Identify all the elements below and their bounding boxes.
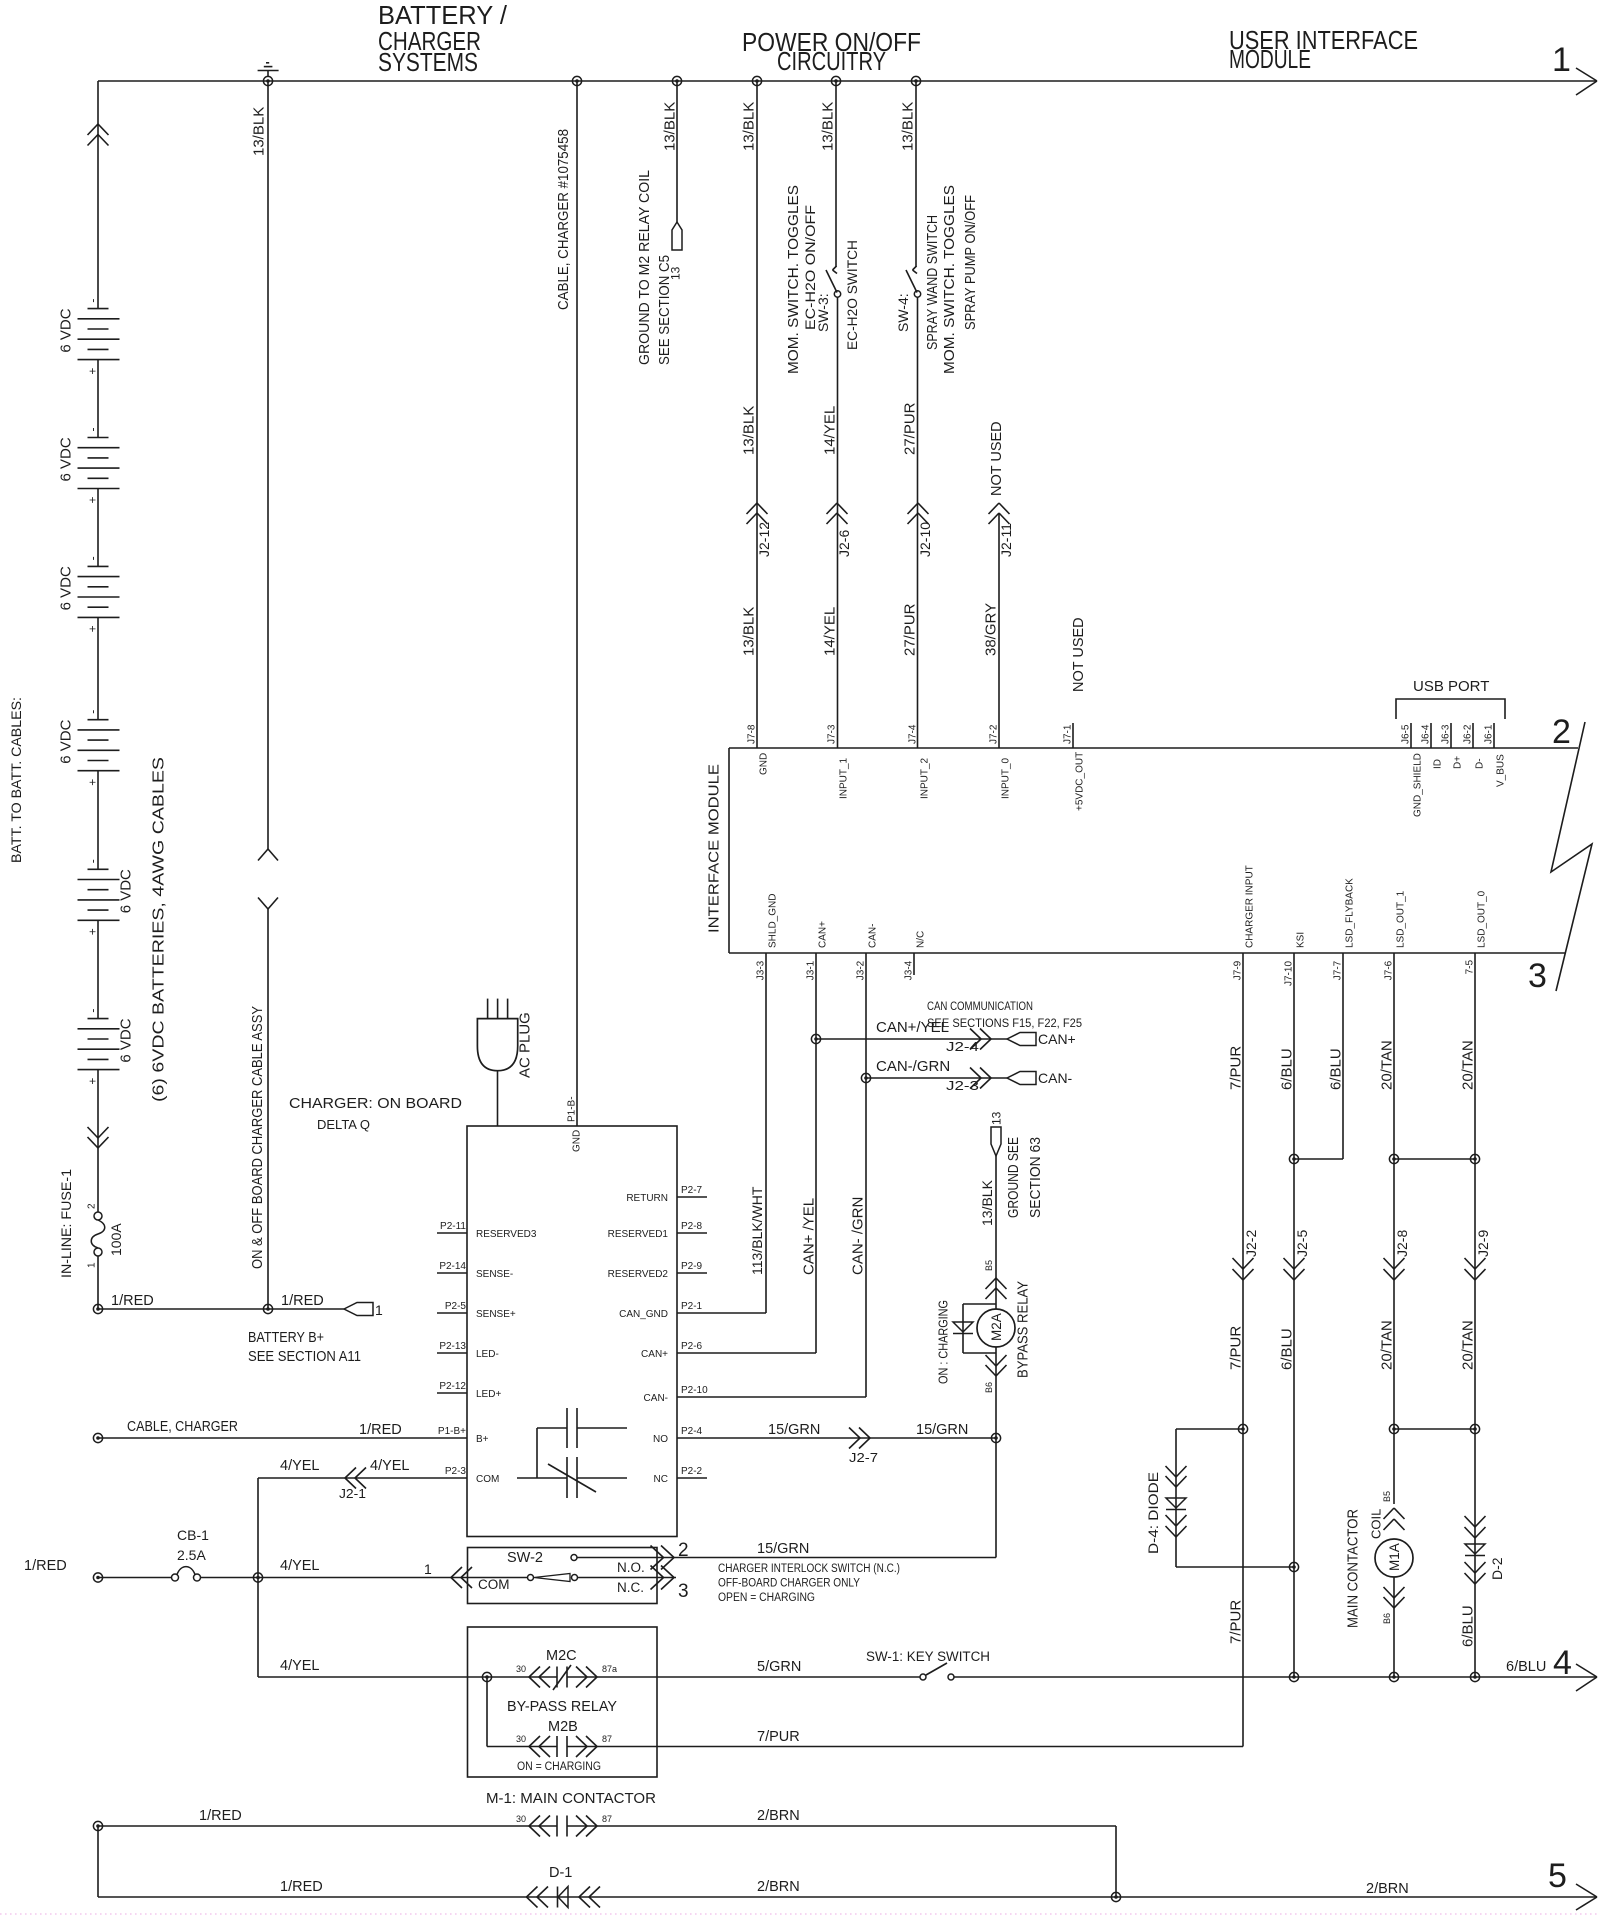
wire fuse to junction bbox=[97, 1256, 99, 1309]
svg-text:D-4: DIODE: D-4: DIODE bbox=[1145, 1472, 1161, 1554]
svg-text:3: 3 bbox=[678, 1581, 689, 1602]
label 13/BLK x269 bbox=[250, 107, 267, 156]
label SW-4: bbox=[895, 293, 911, 332]
svg-text:CIRCUITRY: CIRCUITRY bbox=[777, 46, 886, 76]
node junction x1394 y1677 bbox=[1389, 1672, 1398, 1681]
node junction x98 y1577.5 bbox=[93, 1573, 102, 1582]
label J2-5 bbox=[1294, 1230, 1310, 1257]
node junction top rail x757 bbox=[752, 76, 761, 85]
wire 27/PUR x918 lower bbox=[917, 297, 919, 748]
relay coil M2A bbox=[977, 1309, 1015, 1347]
svg-text:J2-7: J2-7 bbox=[849, 1451, 878, 1465]
wire CAN- P2-10 to x866 bbox=[707, 1396, 866, 1398]
wire 13/BLK x757 bbox=[756, 81, 758, 748]
label 87a (M2C) bbox=[602, 1664, 617, 1674]
wire battery B5 to B6 bbox=[97, 920, 99, 1018]
usb port bracket bbox=[1396, 699, 1505, 719]
pin J7-3 INPUT_1 bbox=[827, 724, 850, 799]
pin J3-4 N/C bbox=[904, 931, 927, 980]
svg-text:J2-1: J2-1 bbox=[339, 1487, 366, 1501]
svg-text:7-5: 7-5 bbox=[1465, 960, 1476, 975]
svg-text:CAN-/GRN: CAN-/GRN bbox=[876, 1058, 950, 1075]
node junction top rail x916 bbox=[911, 76, 920, 85]
label 7/PUR mid bbox=[1227, 1326, 1244, 1370]
svg-text:-: - bbox=[85, 299, 99, 303]
label OFF-BOARD CHARGER ONLY bbox=[718, 1578, 860, 1590]
svg-text:1: 1 bbox=[1552, 41, 1571, 79]
label 87 (M-1) bbox=[602, 1814, 612, 1824]
svg-text:SYSTEMS: SYSTEMS bbox=[378, 47, 478, 77]
label CAN- /GRN vertical bbox=[849, 1197, 866, 1275]
relay contact M-1 bbox=[529, 1816, 597, 1837]
pin P2-8 RESERVED1 bbox=[608, 1221, 707, 1240]
svg-text:-: - bbox=[85, 710, 99, 714]
wire chevrons J2-4 bbox=[970, 1029, 991, 1050]
switch SW-4 spray wand bbox=[906, 266, 921, 297]
svg-text:SPRAY PUMP ON/OFF: SPRAY PUMP ON/OFF bbox=[963, 195, 979, 330]
svg-text:SEE SECTIONS F15, F22, F25: SEE SECTIONS F15, F22, F25 bbox=[927, 1018, 1082, 1030]
svg-text:J3-2: J3-2 bbox=[856, 960, 867, 980]
svg-text:13/BLK: 13/BLK bbox=[740, 607, 757, 656]
svg-text:J2-11: J2-11 bbox=[998, 523, 1014, 557]
svg-text:P2-13: P2-13 bbox=[439, 1341, 466, 1352]
label COM bbox=[478, 1577, 510, 1592]
label 1/RED right bbox=[281, 1293, 324, 1309]
wire 15/GRN SW-2 to M2A bbox=[676, 1557, 996, 1559]
svg-text:LSD_OUT_1: LSD_OUT_1 bbox=[1396, 890, 1407, 948]
label GROUND SEE bbox=[1006, 1137, 1022, 1218]
label SEE SECTION A11 bbox=[248, 1349, 361, 1365]
svg-text:SECTION 63: SECTION 63 bbox=[1028, 1137, 1044, 1218]
svg-text:J2-4: J2-4 bbox=[946, 1040, 979, 1054]
node junction top rail x677 bbox=[672, 76, 681, 85]
svg-text:INTERFACE MODULE: INTERFACE MODULE bbox=[705, 764, 722, 933]
sheet arrow 4 bbox=[1553, 1644, 1597, 1691]
svg-text:MOM. SWITCH. TOGGLES: MOM. SWITCH. TOGGLES bbox=[786, 185, 802, 374]
svg-text:1/RED: 1/RED bbox=[280, 1879, 323, 1895]
label M-1: MAIN CONTACTOR bbox=[486, 1791, 656, 1807]
svg-text:P2-2: P2-2 bbox=[681, 1466, 703, 1477]
heading BATTERY / CHARGER SYSTEMS bbox=[378, 0, 508, 77]
wire 1/RED to D-1 bbox=[98, 1896, 1597, 1898]
svg-text:27/PUR: 27/PUR bbox=[901, 402, 918, 455]
svg-text:CHARGER: ON BOARD: CHARGER: ON BOARD bbox=[289, 1096, 462, 1112]
wire CAN+ vertical bbox=[815, 975, 817, 1353]
svg-text:CAN_GND: CAN_GND bbox=[619, 1309, 668, 1320]
svg-text:D-2: D-2 bbox=[1489, 1557, 1505, 1580]
label BY-PASS RELAY bbox=[507, 1699, 617, 1715]
heading POWER ON/OFF CIRCUITRY bbox=[742, 27, 921, 76]
label NOT USED (J7-1) bbox=[1071, 617, 1087, 692]
svg-text:2/BRN: 2/BRN bbox=[757, 1808, 800, 1824]
wire CB-1 to SW-2 COM bbox=[201, 1577, 529, 1579]
label 20/TAN mid x1394 bbox=[1378, 1320, 1395, 1370]
switch SW-2 contacts bbox=[528, 1555, 578, 1582]
svg-text:INPUT_1: INPUT_1 bbox=[839, 757, 850, 799]
label 30 (M-1) bbox=[516, 1814, 526, 1824]
wire 6/BLU x1294 bbox=[1293, 975, 1295, 1677]
diode branch M2A bbox=[953, 1304, 996, 1353]
label 1/RED left bbox=[111, 1293, 154, 1309]
wire 113/BLK/WHT vertical bbox=[765, 975, 767, 1313]
label NOT USED (J2-11) bbox=[989, 421, 1005, 496]
node junction x487 y1677 bbox=[482, 1672, 491, 1681]
svg-text:NC: NC bbox=[654, 1474, 668, 1485]
svg-text:6 VDC: 6 VDC bbox=[117, 1018, 134, 1062]
label GROUND TO M2 RELAY COIL bbox=[637, 170, 653, 365]
svg-text:B6: B6 bbox=[1382, 1613, 1392, 1624]
label CAN+/YEL bbox=[876, 1019, 949, 1036]
wire chevrons J2-6 bbox=[827, 503, 848, 524]
svg-text:SEE SECTION C5: SEE SECTION C5 bbox=[657, 255, 673, 365]
svg-text:M-1: MAIN CONTACTOR: M-1: MAIN CONTACTOR bbox=[486, 1791, 656, 1807]
svg-text:CAN+ /YEL: CAN+ /YEL bbox=[800, 1198, 817, 1275]
wire chevrons J2-2 bbox=[1233, 1258, 1254, 1280]
svg-text:1: 1 bbox=[424, 1561, 432, 1577]
svg-text:20/TAN: 20/TAN bbox=[1459, 1040, 1476, 1090]
svg-text:B+: B+ bbox=[476, 1434, 489, 1445]
svg-text:+5VDC_OUT: +5VDC_OUT bbox=[1075, 752, 1086, 811]
bypass relay box bbox=[468, 1627, 658, 1777]
svg-text:6/BLU: 6/BLU bbox=[1506, 1659, 1546, 1675]
label SPRAY WAND SWITCH bbox=[925, 215, 941, 350]
wire 4/YEL to M2C bbox=[258, 1676, 487, 1678]
label 13/BLK (M2A) bbox=[979, 1179, 995, 1226]
svg-text:P2-5: P2-5 bbox=[445, 1301, 467, 1312]
svg-text:D-1: D-1 bbox=[549, 1865, 572, 1881]
svg-text:2.5A: 2.5A bbox=[177, 1547, 206, 1563]
wire chevrons J2-8 bbox=[1384, 1258, 1405, 1280]
svg-text:J7-1: J7-1 bbox=[1063, 724, 1074, 744]
svg-text:SENSE-: SENSE- bbox=[476, 1269, 513, 1280]
page edge dotted line bbox=[0, 1913, 1600, 1915]
sheet arrow 3 bbox=[1528, 957, 1547, 995]
svg-text:SPRAY WAND SWITCH: SPRAY WAND SWITCH bbox=[925, 215, 941, 350]
svg-text:M2A: M2A bbox=[989, 1313, 1004, 1341]
connector flag CAN+ bbox=[1007, 1031, 1076, 1047]
node junction x1294 y1567 bbox=[1289, 1562, 1298, 1571]
svg-text:6 VDC: 6 VDC bbox=[117, 869, 134, 913]
pin J3-1 CAN+ bbox=[806, 921, 829, 980]
svg-text:AC PLUG: AC PLUG bbox=[516, 1012, 533, 1078]
svg-text:P2-14: P2-14 bbox=[439, 1261, 466, 1272]
svg-text:-: - bbox=[85, 428, 99, 432]
svg-text:J2-3: J2-3 bbox=[946, 1079, 979, 1093]
wire chevrons M1A bottom bbox=[1384, 1587, 1405, 1608]
label 27/PUR rowB bbox=[901, 603, 918, 656]
label J2-12 bbox=[756, 522, 772, 557]
battery B4 6 VDC bbox=[57, 710, 119, 786]
pin J7-8 GND bbox=[747, 724, 770, 775]
label INTERFACE MODULE bbox=[705, 764, 722, 933]
label SEE SECTIONS F15, F22, F25 bbox=[927, 1018, 1082, 1030]
heading USER INTERFACE MODULE bbox=[1229, 25, 1418, 74]
wire break fork lower bbox=[258, 898, 278, 910]
svg-text:6 VDC: 6 VDC bbox=[57, 719, 74, 763]
svg-text:MAIN CONTACTOR: MAIN CONTACTOR bbox=[1344, 1509, 1361, 1628]
svg-text:J6-1: J6-1 bbox=[1484, 724, 1495, 744]
node junction top rail x267 bbox=[263, 76, 272, 85]
label D-2 bbox=[1489, 1557, 1505, 1580]
wire 6/BLU x1343 bbox=[1294, 975, 1343, 1159]
label 4/YEL right bbox=[370, 1458, 410, 1474]
svg-text:CAN+: CAN+ bbox=[818, 921, 829, 948]
svg-text:4/YEL: 4/YEL bbox=[280, 1458, 320, 1474]
svg-text:87: 87 bbox=[602, 1814, 612, 1824]
wire top 13/BLK rail bbox=[98, 80, 1597, 82]
switch SW-3 EC-H2O bbox=[826, 266, 841, 297]
svg-text:ON : CHARGING: ON : CHARGING bbox=[936, 1300, 951, 1384]
label J2-9 bbox=[1475, 1230, 1491, 1257]
label J2-10 bbox=[917, 522, 933, 557]
wire tie y1429 bbox=[1394, 1428, 1475, 1430]
pin P2-10 CAN- bbox=[644, 1385, 709, 1404]
svg-text:J2-5: J2-5 bbox=[1294, 1230, 1310, 1257]
relay contact M2C bbox=[529, 1665, 597, 1690]
svg-text:OFF-BOARD CHARGER ONLY: OFF-BOARD CHARGER ONLY bbox=[718, 1578, 860, 1590]
node junction x98 y1826 bbox=[93, 1821, 102, 1830]
pin J6-3 D+ bbox=[1441, 723, 1464, 769]
label J2-2 bbox=[1243, 1230, 1259, 1257]
svg-text:P2-8: P2-8 bbox=[681, 1221, 703, 1232]
svg-text:20/TAN: 20/TAN bbox=[1378, 1320, 1395, 1370]
diode D-1 bbox=[527, 1887, 601, 1908]
label M2B bbox=[548, 1719, 578, 1735]
wire CAN+ branch bbox=[816, 1038, 1007, 1040]
wire chevrons J2-12 bbox=[747, 503, 768, 524]
label 14/YEL rowB bbox=[821, 607, 838, 656]
wire 2/BRN M-1 out bbox=[567, 1825, 1116, 1827]
svg-text:B5: B5 bbox=[984, 1260, 994, 1271]
pin P2-12 LED+ bbox=[437, 1381, 501, 1400]
svg-text:B5: B5 bbox=[1382, 1491, 1392, 1502]
label DELTA Q bbox=[317, 1118, 370, 1132]
svg-text:ON & OFF BOARD CHARGER CABLE A: ON & OFF BOARD CHARGER CABLE ASSY bbox=[250, 1006, 266, 1269]
wire M2C row bbox=[487, 1676, 613, 1678]
battery B2 6 VDC bbox=[57, 428, 119, 504]
svg-text:J6-3: J6-3 bbox=[1441, 724, 1452, 744]
svg-text:15/GRN: 15/GRN bbox=[768, 1422, 820, 1438]
svg-text:13/BLK: 13/BLK bbox=[740, 406, 757, 455]
label pin 3 bbox=[678, 1581, 689, 1602]
svg-text:EC-H2O SWITCH: EC-H2O SWITCH bbox=[844, 240, 860, 350]
label 113/BLK/WHT bbox=[749, 1186, 765, 1275]
svg-text:-: - bbox=[85, 556, 99, 560]
wire M2B row bbox=[487, 1746, 613, 1748]
svg-text:IN-LINE: FUSE-1: IN-LINE: FUSE-1 bbox=[58, 1169, 74, 1278]
wire ac plug to charger bbox=[497, 1071, 499, 1126]
label EC-H2O ON/OFF bbox=[802, 205, 818, 330]
pin J6-5 GND_SHIELD bbox=[1401, 723, 1424, 817]
svg-text:J6-2: J6-2 bbox=[1463, 724, 1474, 744]
svg-text:P1-B-: P1-B- bbox=[567, 1096, 578, 1122]
svg-text:1/RED: 1/RED bbox=[111, 1293, 154, 1309]
label 27/PUR rowA bbox=[901, 402, 918, 455]
svg-text:J7-7: J7-7 bbox=[1333, 960, 1344, 980]
svg-text:P1-B+: P1-B+ bbox=[438, 1426, 466, 1437]
label B6 (M2A) bbox=[984, 1382, 994, 1393]
wire chevrons M2A top bbox=[986, 1278, 1007, 1299]
svg-text:CABLE, CHARGER #1075458: CABLE, CHARGER #1075458 bbox=[556, 129, 572, 310]
svg-text:NOT USED: NOT USED bbox=[1071, 617, 1087, 692]
svg-text:CAN+: CAN+ bbox=[641, 1349, 668, 1360]
svg-text:M1A: M1A bbox=[1387, 1543, 1402, 1571]
wire break fork upper bbox=[258, 849, 278, 861]
label CAN-/GRN bbox=[876, 1058, 950, 1075]
svg-text:2/BRN: 2/BRN bbox=[757, 1879, 800, 1895]
wire battery B3 to B4 bbox=[97, 617, 99, 719]
svg-text:J7-4: J7-4 bbox=[908, 724, 919, 744]
label SW-1: KEY SWITCH bbox=[866, 1649, 990, 1664]
label pin 2 bbox=[678, 1540, 689, 1561]
wire CAN- branch bbox=[866, 1077, 1007, 1079]
node junction top rail x836 bbox=[831, 76, 840, 85]
label B5 (M2A) bbox=[984, 1260, 994, 1271]
label 6/BLU mid x1294 bbox=[1278, 1328, 1295, 1370]
label 13/BLK x757 rowB bbox=[740, 607, 757, 656]
svg-text:13/BLK: 13/BLK bbox=[661, 102, 678, 151]
pin P1-B+ B+ bbox=[437, 1426, 489, 1445]
svg-text:13: 13 bbox=[989, 1111, 1003, 1125]
svg-text:20/TAN: 20/TAN bbox=[1378, 1040, 1395, 1090]
label 15/GRN right bbox=[916, 1422, 968, 1438]
node junction x98 y1438 bbox=[93, 1433, 102, 1442]
svg-text:6/BLU: 6/BLU bbox=[1278, 1048, 1295, 1090]
wire M2A bottom bbox=[995, 1347, 997, 1438]
label 6/BLU bottom x1475 bbox=[1459, 1605, 1476, 1647]
label 13/BLK x916 row0 bbox=[899, 102, 916, 151]
svg-text:BY-PASS RELAY: BY-PASS RELAY bbox=[507, 1699, 617, 1715]
wire chevrons J2-3 bbox=[970, 1068, 991, 1089]
wire 4/YEL J2-1 row bbox=[258, 1477, 437, 1479]
svg-text:OPEN = CHARGING: OPEN = CHARGING bbox=[718, 1592, 815, 1604]
wire 15/GRN P2-4 bbox=[707, 1437, 997, 1439]
wire tie y1159 bbox=[1394, 1158, 1475, 1160]
svg-text:(6) 6VDC BATTERIES, 4AWG CABLE: (6) 6VDC BATTERIES, 4AWG CABLES bbox=[151, 757, 168, 1102]
svg-text:6 VDC: 6 VDC bbox=[57, 308, 74, 352]
svg-text:4: 4 bbox=[1553, 1644, 1572, 1682]
svg-text:P2-12: P2-12 bbox=[439, 1381, 466, 1392]
wire SW-2 NO out bbox=[577, 1557, 676, 1559]
svg-text:4/YEL: 4/YEL bbox=[280, 1558, 320, 1574]
svg-text:15/GRN: 15/GRN bbox=[757, 1541, 809, 1557]
svg-text:COM: COM bbox=[476, 1474, 499, 1485]
svg-text:USB PORT: USB PORT bbox=[1413, 678, 1489, 695]
wire chevrons J2-9 bbox=[1465, 1258, 1486, 1280]
pin P2-2 NC bbox=[654, 1466, 707, 1485]
pin 7-5 LSD_OUT_0 bbox=[1465, 890, 1488, 975]
diode D-2 bbox=[1465, 1516, 1486, 1584]
node junction top rail x577 bbox=[572, 76, 581, 85]
pin J3-3 SHLD_GND bbox=[756, 894, 779, 981]
node junction x1475 y1159 bbox=[1470, 1154, 1479, 1163]
pin P2-14 SENSE- bbox=[437, 1261, 513, 1280]
label J2-11 bbox=[998, 523, 1014, 557]
wire 4/YEL vertical x258 bbox=[257, 1478, 259, 1677]
svg-text:P2-10: P2-10 bbox=[681, 1385, 708, 1396]
wire 1/RED battery B+ row bbox=[98, 1308, 344, 1310]
wire charger cable assy upper bbox=[267, 81, 269, 849]
svg-text:14/YEL: 14/YEL bbox=[821, 406, 838, 455]
svg-text:CHARGER INTERLOCK SWITCH (N.C.: CHARGER INTERLOCK SWITCH (N.C.) bbox=[718, 1563, 900, 1575]
svg-text:GROUND TO M2 RELAY COIL: GROUND TO M2 RELAY COIL bbox=[637, 170, 653, 365]
label 13/BLK x836 row0 bbox=[819, 102, 836, 151]
svg-text:6 VDC: 6 VDC bbox=[57, 437, 74, 481]
svg-text:BYPASS RELAY: BYPASS RELAY bbox=[1014, 1281, 1031, 1378]
svg-text:RESERVED1: RESERVED1 bbox=[608, 1229, 669, 1240]
connector flag CAN- bbox=[1007, 1070, 1073, 1086]
wire chevrons J2-11 bbox=[989, 503, 1010, 524]
sheet arrow 5 bbox=[1548, 1857, 1597, 1910]
wire 13/BLK x916 upper bbox=[915, 81, 917, 267]
node junction x1294 y1159 bbox=[1289, 1154, 1298, 1163]
svg-text:27/PUR: 27/PUR bbox=[901, 603, 918, 656]
svg-text:SW-4:: SW-4: bbox=[895, 293, 911, 332]
svg-text:D-: D- bbox=[1475, 758, 1486, 769]
sheet break zigzag bbox=[1551, 722, 1592, 991]
wire ground-to-M2 x677 bbox=[676, 81, 678, 222]
svg-text:CABLE, CHARGER: CABLE, CHARGER bbox=[127, 1419, 238, 1435]
wire 6/BLU key switch row bbox=[954, 1676, 1597, 1678]
svg-text:P2-4: P2-4 bbox=[681, 1426, 703, 1437]
label B5 (M1A) bbox=[1382, 1491, 1392, 1502]
label 20/TAN top x1475 bbox=[1459, 1040, 1476, 1090]
svg-text:GROUND SEE: GROUND SEE bbox=[1006, 1137, 1022, 1218]
wire 1/RED to M-1 bbox=[98, 1825, 557, 1827]
wire battery B2 to B3 bbox=[97, 489, 99, 567]
svg-text:30: 30 bbox=[516, 1734, 526, 1744]
svg-text:J6-4: J6-4 bbox=[1421, 724, 1432, 744]
label D-4: DIODE bbox=[1145, 1472, 1161, 1554]
wire pin stub J7-1 bbox=[1072, 723, 1074, 748]
label 7/PUR bottom bbox=[1227, 1600, 1244, 1644]
wire battery B1 to B2 bbox=[97, 360, 99, 438]
label 4/YEL left bbox=[280, 1458, 320, 1474]
svg-text:D+: D+ bbox=[1453, 756, 1464, 769]
charger box (Delta Q) bbox=[467, 1126, 677, 1537]
wire 1/RED charger cable bbox=[98, 1437, 437, 1439]
svg-text:J3-3: J3-3 bbox=[756, 960, 767, 980]
svg-text:13/BLK: 13/BLK bbox=[819, 102, 836, 151]
svg-text:N.O.: N.O. bbox=[617, 1560, 645, 1575]
label 13/BLK x757 rowA bbox=[740, 406, 757, 455]
svg-text:LED-: LED- bbox=[476, 1349, 499, 1360]
sheet arrow 1 bbox=[1552, 41, 1597, 95]
pin P2-6 CAN+ bbox=[641, 1341, 707, 1360]
label IN-LINE: FUSE-1 bbox=[58, 1169, 74, 1278]
pin J7-1 +5VDC_OUT bbox=[1063, 724, 1086, 811]
label 1/RED (cable charger) bbox=[359, 1422, 402, 1438]
interface module box bbox=[729, 748, 1578, 953]
svg-text:87a: 87a bbox=[602, 1664, 617, 1674]
svg-text:6/BLU: 6/BLU bbox=[1327, 1048, 1344, 1090]
label 38/GRY rowB bbox=[982, 603, 999, 656]
svg-text:CAN-: CAN- bbox=[644, 1393, 668, 1404]
wire M2A junction down bbox=[995, 1438, 997, 1558]
node junction x98 y1309 bbox=[93, 1304, 102, 1313]
svg-text:1/RED: 1/RED bbox=[199, 1808, 242, 1824]
label BATTERY B+ bbox=[248, 1330, 324, 1346]
wire chevrons pin3 bbox=[651, 1566, 675, 1590]
svg-text:2: 2 bbox=[87, 1203, 98, 1209]
pin J7-4 INPUT_2 bbox=[908, 724, 931, 799]
label (6) 6VDC BATTERIES, 4AWG CABLES bbox=[151, 757, 168, 1102]
pin P2-13 LED- bbox=[437, 1341, 499, 1360]
svg-text:RETURN: RETURN bbox=[626, 1193, 668, 1204]
label CHARGER INTERLOCK SWITCH (N.C.) bbox=[718, 1563, 900, 1575]
label BATT. TO BATT. CABLES: bbox=[8, 697, 24, 863]
label 1/RED (D-1 row) bbox=[280, 1879, 323, 1895]
